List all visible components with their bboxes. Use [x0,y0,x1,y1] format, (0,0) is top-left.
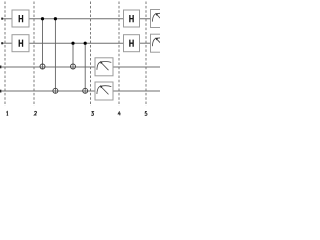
CNOT 2 target on q3 [53,88,58,93]
CNOT 3 control dot on q1 [71,42,74,45]
moment label 2 [34,111,36,115]
moment label 4 [118,111,120,115]
CNOT 1 target on q2 [40,64,45,69]
H gate q0 moment 4 [124,10,140,27]
moment label 1 [6,112,8,116]
H gate q1 moment 4 [124,35,140,52]
measurement gate q2 [95,58,113,76]
CNOT 1 control dot on q0 [41,17,44,20]
moment separator line 4 [118,2,120,107]
CNOT 2 vertical (q0 to q3) [54,19,56,94]
CNOT 2 control dot on q0 [54,17,57,20]
moment separator line 3 [90,2,92,107]
qubit wire q1 [2,42,151,44]
CNOT 1 vertical (q0 to q2) [42,19,44,70]
measurement gate q0 (cut at right edge) [151,10,169,28]
wire q2 start tick [0,66,1,69]
moment label 5 [145,112,147,116]
moment label 3 [91,112,93,116]
moment separator line 1 [4,2,6,107]
CNOT 4 vertical (q1 to q3) [84,43,86,93]
wire q0 start tick [1,18,3,20]
H gate q0 moment 1 [12,10,29,27]
qubit wire q0 [2,18,151,20]
wire q3 start tick [0,90,1,93]
wire q1 start tick [1,42,3,44]
CNOT 3 vertical (q1 to q2) [72,43,74,69]
qubit wire q3 [2,90,161,92]
measurement gate q3 [95,82,113,100]
H gate q1 moment 1 [12,35,29,52]
CNOT 4 control dot on q1 [84,42,87,45]
measurement gate q1 (cut at right edge) [151,34,169,52]
moment separator line 2 [33,2,35,107]
CNOT 4 target on q3 [83,88,88,93]
qubit wire q2 [2,66,161,68]
moment separator line 5 [145,2,147,107]
CNOT 3 target on q2 [71,64,76,69]
